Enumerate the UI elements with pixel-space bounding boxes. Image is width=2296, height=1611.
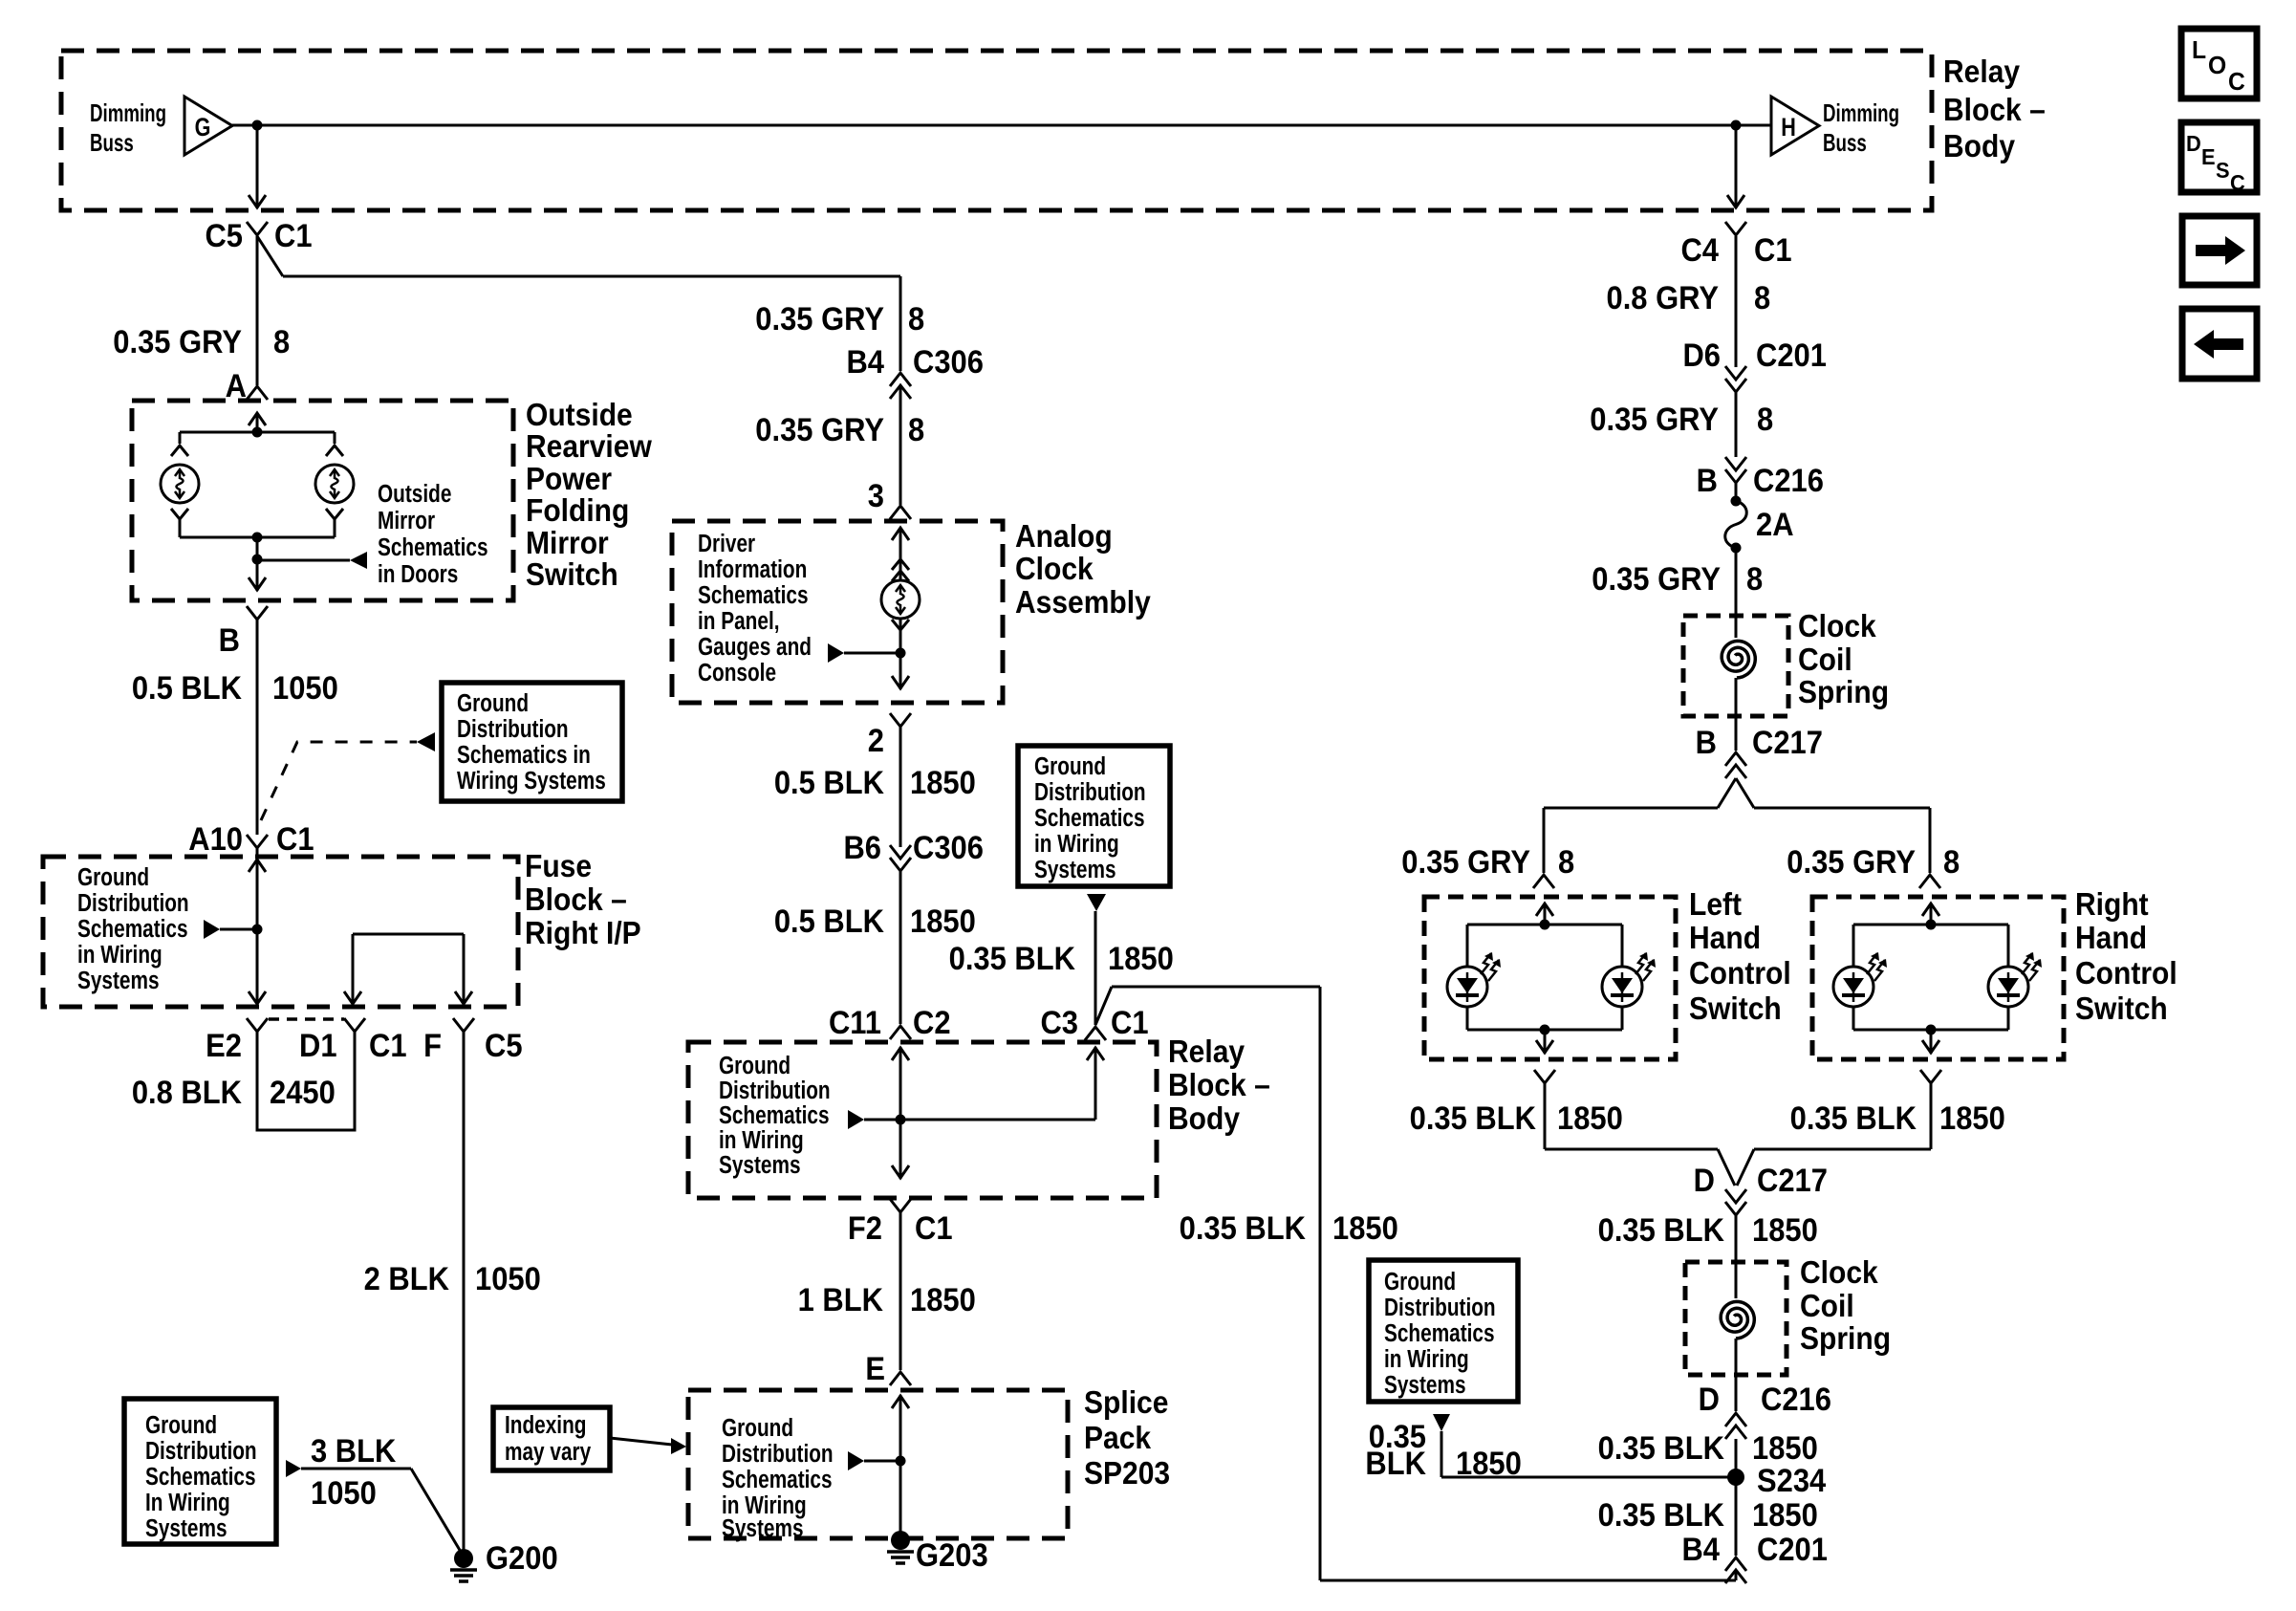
clock lamp: [881, 580, 920, 619]
wire fuse block vertical: [249, 848, 266, 1005]
svg-text:Buss: Buss: [1823, 128, 1867, 157]
splice inner text: [722, 1414, 834, 1542]
clock coil spring label 2: [1800, 1254, 1891, 1357]
stub ground distribution S234: [1433, 1414, 1450, 1431]
svg-text:2 BLK: 2 BLK: [364, 1261, 450, 1297]
right hand control switch dashed box: [1812, 897, 2064, 1059]
svg-text:Hand: Hand: [1689, 920, 1761, 956]
wire split Y: [1718, 778, 1754, 808]
wire 1 BLK 1850: [798, 1212, 976, 1370]
svg-text:0.35 BLK: 0.35 BLK: [1598, 1430, 1725, 1467]
wire 0.35 BLK 1850 stub label: [949, 941, 1174, 977]
svg-text:B: B: [219, 622, 240, 659]
left hand control switch label: [1689, 886, 1791, 1027]
node rail bottom: [252, 533, 263, 543]
pin F2 C1: [848, 1199, 953, 1246]
ground distribution solid box right: [1369, 1260, 1518, 1402]
wire left switch bottom: [1536, 1030, 1553, 1054]
relay block body dashed box: [688, 1042, 1157, 1198]
wire 0.35 GRY 8 left branch: [1401, 844, 1574, 881]
svg-text:Systems: Systems: [77, 967, 160, 994]
svg-text:B4: B4: [1681, 1532, 1720, 1568]
pin 2 clock: [868, 713, 911, 758]
lamp left pin bottom: [171, 509, 188, 519]
svg-text:C5: C5: [205, 218, 243, 254]
clock coil spring dashed box 2: [1685, 1262, 1787, 1375]
svg-text:0.5 BLK: 0.5 BLK: [132, 670, 243, 707]
node right switch top: [1926, 920, 1937, 930]
wire C1 branch horizontal: [283, 275, 900, 278]
svg-text:D: D: [2186, 131, 2201, 156]
svg-text:in Wiring: in Wiring: [719, 1126, 804, 1154]
lamp left: [161, 465, 199, 503]
svg-text:C: C: [2230, 170, 2245, 195]
svg-text:1850: 1850: [1752, 1212, 1818, 1249]
svg-text:1850: 1850: [1557, 1100, 1623, 1137]
node junction G: [252, 120, 263, 131]
svg-text:0.8 GRY: 0.8 GRY: [1607, 280, 1720, 316]
svg-text:3 BLK: 3 BLK: [311, 1433, 397, 1469]
svg-text:in Wiring: in Wiring: [1384, 1345, 1469, 1373]
wire right branch: [1754, 808, 1930, 873]
pin E2 D1: [206, 1018, 336, 1063]
connector D C217: [1694, 1163, 1828, 1215]
lamp right: [315, 465, 354, 503]
svg-text:S234: S234: [1757, 1463, 1826, 1499]
svg-text:Rearview: Rearview: [526, 428, 652, 465]
stub 3 BLK 1050: [286, 1433, 464, 1557]
svg-text:Distribution: Distribution: [722, 1440, 834, 1468]
svg-text:1850: 1850: [1332, 1210, 1398, 1247]
splice pack dashed box: [688, 1390, 1068, 1538]
pin C11 C2: [829, 1005, 951, 1041]
svg-text:C216: C216: [1753, 463, 1824, 499]
svg-text:Body: Body: [1168, 1100, 1240, 1137]
wire S234 branch left: [1441, 1431, 1736, 1477]
svg-text:F2: F2: [848, 1210, 882, 1247]
svg-text:D: D: [1699, 1382, 1720, 1418]
node splice stub: [896, 1456, 906, 1467]
node fuse stub: [252, 925, 263, 935]
connector B C217: [1696, 725, 1823, 778]
pin F C5: [423, 1018, 522, 1063]
svg-text:D1: D1: [299, 1028, 337, 1064]
wire left switch top: [1536, 903, 1553, 925]
LED right 1: [1833, 952, 1887, 1007]
fuse block label: [525, 848, 641, 951]
svg-text:C1: C1: [276, 821, 314, 858]
svg-text:G200: G200: [486, 1540, 558, 1577]
wire 0.35 BLK 1850 to coil 2: [1598, 1212, 1818, 1411]
svg-text:C: C: [2228, 68, 2245, 96]
wire dimming buss horizontal: [232, 124, 1771, 127]
wire clock internal top: [892, 528, 909, 581]
svg-text:Block –: Block –: [1168, 1067, 1270, 1103]
wire switch top stub: [249, 413, 266, 432]
svg-text:Control: Control: [2075, 955, 2177, 991]
wire C3 to ground distribution stub: [1094, 911, 1097, 1025]
connector D6 C201: [1682, 337, 1827, 392]
connector B C216: [1697, 457, 1824, 498]
svg-text:Distribution: Distribution: [719, 1077, 831, 1104]
svg-text:Assembly: Assembly: [1015, 584, 1151, 620]
svg-text:Body: Body: [1943, 128, 2015, 164]
svg-text:0.35 BLK: 0.35 BLK: [1410, 1100, 1537, 1137]
svg-text:2A: 2A: [1756, 507, 1794, 543]
node left switch top: [1540, 920, 1550, 930]
fuse block inner text: [77, 863, 189, 994]
svg-text:Wiring Systems: Wiring Systems: [457, 767, 606, 795]
svg-text:0.35 BLK: 0.35 BLK: [949, 941, 1076, 977]
left arrow icon box: [2182, 309, 2257, 379]
stub driver information: [828, 643, 900, 663]
svg-text:B: B: [1696, 725, 1717, 761]
svg-text:SP203: SP203: [1084, 1455, 1170, 1491]
wire clock internal bottom: [892, 619, 909, 689]
svg-text:C1: C1: [915, 1210, 953, 1247]
stub outside mirror schematics: [257, 552, 367, 569]
svg-text:1 BLK: 1 BLK: [798, 1282, 884, 1318]
svg-text:in Wiring: in Wiring: [77, 941, 162, 969]
wire 0.35 GRY 8 left: [113, 236, 290, 385]
DESC icon box: [2181, 122, 2257, 195]
svg-text:Systems: Systems: [145, 1514, 227, 1542]
left hand control switch dashed box: [1424, 897, 1676, 1059]
LED left 2: [1602, 952, 1656, 1007]
svg-text:E: E: [865, 1351, 885, 1387]
svg-text:Coil: Coil: [1798, 642, 1852, 678]
svg-text:0.8 BLK: 0.8 BLK: [132, 1075, 243, 1111]
pin E splice: [865, 1351, 911, 1387]
svg-text:Information: Information: [698, 555, 807, 583]
svg-text:G203: G203: [916, 1537, 988, 1574]
svg-text:1850: 1850: [910, 903, 976, 940]
ground distribution solid box lower left: [124, 1399, 276, 1544]
svg-text:BLK: BLK: [1365, 1446, 1426, 1482]
pin right switch bottom: [1920, 1070, 1941, 1083]
svg-text:8: 8: [1746, 561, 1763, 598]
pin right switch: [1919, 875, 1940, 888]
wire right switch rails: [1853, 925, 2008, 1030]
svg-text:F: F: [423, 1028, 442, 1064]
arrow indexing to splice pack: [610, 1438, 686, 1454]
wire 0.35 BLK 1850 below S234: [1598, 1497, 1818, 1534]
svg-text:Dimming: Dimming: [90, 98, 166, 127]
lamp left pin top: [171, 446, 188, 456]
wire H drop to border: [1727, 125, 1744, 208]
lamp right pin top: [326, 446, 343, 456]
dimming buss triangle G: [184, 97, 232, 155]
fuse block dashed box: [43, 857, 518, 1007]
svg-text:0.35 BLK: 0.35 BLK: [1180, 1210, 1307, 1247]
clock coil spring label 1: [1798, 608, 1889, 710]
wire G drop to border: [249, 125, 266, 208]
svg-text:in Doors: in Doors: [378, 560, 458, 588]
svg-text:Block –: Block –: [525, 882, 627, 918]
stub splice ground distribution: [848, 1451, 900, 1470]
svg-text:Systems: Systems: [1034, 856, 1116, 883]
relay block inner text: [719, 1052, 831, 1179]
svg-text:0.35 GRY: 0.35 GRY: [1592, 561, 1721, 598]
wire switch bottom exit: [249, 559, 266, 591]
connector C4 C1: [1680, 222, 1791, 268]
svg-text:1850: 1850: [1456, 1446, 1522, 1482]
driver information text: [698, 530, 812, 686]
svg-text:D: D: [1694, 1163, 1715, 1199]
svg-text:E2: E2: [206, 1028, 242, 1064]
svg-text:Clock: Clock: [1800, 1254, 1878, 1291]
wire 0.35 GRY 8 middle top: [755, 276, 924, 371]
svg-text:C5: C5: [485, 1028, 523, 1064]
svg-text:Gauges and: Gauges and: [698, 633, 812, 661]
svg-text:Mirror: Mirror: [378, 507, 435, 534]
wire C1 branch diagonal: [257, 236, 283, 276]
splice pack label: [1084, 1384, 1170, 1491]
svg-text:C1: C1: [1111, 1005, 1149, 1041]
svg-text:H: H: [1781, 114, 1796, 142]
svg-text:0.35 GRY: 0.35 GRY: [755, 412, 884, 448]
wire 0.5 BLK 1050: [132, 620, 338, 835]
connector dashes D1 C1: [269, 1017, 344, 1021]
connector B4 C306: [846, 344, 984, 399]
stub ground distribution fuse: [204, 920, 257, 939]
svg-text:Right: Right: [2075, 886, 2149, 923]
svg-text:Coil: Coil: [1800, 1288, 1854, 1324]
svg-text:1050: 1050: [272, 670, 338, 707]
clock coil spring spiral 1: [1722, 641, 1755, 678]
wire 0.35 GRY 8 to coil: [1592, 548, 1763, 751]
wire relay right riser: [1087, 1047, 1104, 1120]
svg-text:Relay: Relay: [1943, 54, 2021, 90]
wire top rail: [180, 432, 335, 444]
node stub: [252, 555, 263, 565]
splice S234: [1727, 1463, 1826, 1499]
svg-text:1050: 1050: [311, 1475, 377, 1512]
node left switch bottom: [1540, 1025, 1550, 1035]
svg-text:Ground: Ground: [457, 689, 529, 717]
svg-text:Hand: Hand: [2075, 920, 2147, 956]
svg-text:Clock: Clock: [1015, 551, 1094, 587]
svg-text:A10: A10: [188, 821, 243, 858]
svg-text:G: G: [195, 114, 211, 142]
svg-text:0.35 GRY: 0.35 GRY: [755, 301, 884, 337]
connector B6 C306: [843, 830, 984, 871]
svg-text:Splice: Splice: [1084, 1384, 1168, 1421]
right arrow icon box: [2182, 216, 2257, 285]
connector C5 C1: [205, 218, 312, 254]
svg-text:C2: C2: [913, 1005, 951, 1041]
svg-text:Left: Left: [1689, 886, 1742, 923]
wire 0.35 BLK 1850 left down: [1410, 1083, 1735, 1186]
analog clock assembly dashed box: [672, 521, 1003, 703]
svg-text:Ground: Ground: [1034, 752, 1106, 780]
svg-text:8: 8: [273, 324, 290, 360]
svg-text:Distribution: Distribution: [1034, 778, 1146, 806]
dimming buss triangle H: [1771, 97, 1819, 155]
svg-text:Schematics: Schematics: [698, 581, 809, 609]
lamp right pin bottom: [326, 509, 343, 519]
relay block body label: [1168, 1034, 1270, 1137]
svg-text:Indexing: Indexing: [505, 1411, 586, 1439]
svg-text:E: E: [2201, 144, 2216, 169]
pin 3 clock: [868, 478, 911, 519]
pin C3 C1: [1040, 1005, 1148, 1041]
analog clock assembly label: [1015, 518, 1151, 620]
svg-text:Schematics: Schematics: [722, 1466, 833, 1493]
wire splice vertical: [892, 1395, 909, 1540]
svg-text:1850: 1850: [910, 1282, 976, 1318]
wire 0.35 BLK 1850 long run label: [1180, 1210, 1398, 1247]
pin A connector: [226, 368, 268, 404]
svg-text:0.35 GRY: 0.35 GRY: [1787, 844, 1916, 881]
svg-text:8: 8: [1558, 844, 1574, 881]
svg-text:Distribution: Distribution: [77, 889, 189, 917]
wire 0.35 GRY 8 middle 2: [755, 386, 924, 505]
ground distribution solid box middle: [1018, 746, 1170, 886]
circuit breaker 2A: [1725, 496, 1794, 554]
svg-text:D6: D6: [1682, 337, 1721, 374]
svg-text:Pack: Pack: [1084, 1420, 1152, 1456]
connector B4 C201: [1681, 1532, 1828, 1583]
dashed pointer to ground distribution: [261, 732, 435, 820]
svg-text:1850: 1850: [1752, 1497, 1818, 1534]
svg-text:may vary: may vary: [505, 1438, 591, 1466]
node junction H: [1731, 120, 1742, 131]
wire 0.35 GRY 8 right: [1590, 392, 1773, 457]
svg-text:C4: C4: [1680, 232, 1719, 269]
svg-text:Schematics: Schematics: [378, 533, 488, 561]
wire rail to stub: [256, 537, 259, 559]
svg-text:Schematics: Schematics: [1384, 1319, 1495, 1347]
stub ground distribution C3: [1087, 894, 1106, 911]
svg-text:Folding: Folding: [526, 492, 629, 529]
wire 0.35 BLK 1850 right down: [1737, 1083, 2005, 1186]
svg-text:Ground: Ground: [145, 1411, 217, 1439]
right hand control switch label: [2075, 886, 2177, 1027]
clock coil spring dashed box 1: [1683, 616, 1788, 716]
wire bottom rail: [180, 519, 335, 537]
svg-text:Distribution: Distribution: [457, 715, 569, 743]
wire left switch rails: [1467, 925, 1622, 1030]
ground distribution solid box upper: [442, 683, 622, 801]
dimming buss label right: [1823, 98, 1899, 157]
svg-text:Schematics: Schematics: [77, 915, 188, 943]
node right switch bottom: [1926, 1025, 1937, 1035]
svg-text:C217: C217: [1752, 725, 1823, 761]
svg-text:0.5 BLK: 0.5 BLK: [774, 765, 885, 801]
node relay stub: [896, 1115, 906, 1125]
svg-text:0.35 BLK: 0.35 BLK: [1790, 1100, 1917, 1137]
svg-text:1050: 1050: [475, 1261, 541, 1297]
svg-text:C11: C11: [829, 1005, 881, 1041]
svg-text:Schematics in: Schematics in: [457, 741, 591, 769]
svg-text:C1: C1: [369, 1028, 407, 1064]
svg-text:1850: 1850: [1939, 1100, 2005, 1137]
wire to fuse 2A: [1735, 483, 1738, 501]
svg-text:C1: C1: [274, 218, 313, 254]
svg-text:0.35 BLK: 0.35 BLK: [1598, 1212, 1725, 1249]
svg-text:8: 8: [1943, 844, 1960, 881]
svg-text:2450: 2450: [270, 1075, 336, 1111]
svg-text:C201: C201: [1757, 1532, 1828, 1568]
wire 0.8 GRY 8: [1607, 236, 1771, 367]
pin C1 fuse: [344, 1018, 407, 1063]
svg-text:Right I/P: Right I/P: [525, 915, 641, 951]
svg-text:O: O: [2208, 52, 2226, 79]
connector D C216: [1699, 1382, 1831, 1439]
svg-text:Switch: Switch: [1689, 991, 1782, 1027]
wire left branch: [1544, 808, 1718, 873]
svg-text:Systems: Systems: [719, 1151, 801, 1179]
svg-text:Control: Control: [1689, 955, 1791, 991]
mirror switch label: [526, 397, 652, 593]
svg-text:Ground: Ground: [77, 863, 149, 891]
svg-text:8: 8: [1757, 402, 1773, 438]
outside mirror schematics text: [378, 480, 488, 588]
svg-text:0.35 GRY: 0.35 GRY: [1590, 402, 1719, 438]
svg-text:2: 2: [868, 723, 884, 759]
wire right switch top: [1922, 903, 1939, 925]
svg-text:B6: B6: [843, 830, 881, 866]
svg-text:8: 8: [908, 301, 924, 337]
svg-text:Console: Console: [698, 659, 776, 686]
node rail top: [252, 427, 263, 438]
svg-text:Clock: Clock: [1798, 608, 1876, 644]
svg-text:Schematics: Schematics: [1034, 804, 1145, 832]
svg-text:0.5 BLK: 0.5 BLK: [774, 903, 885, 940]
clock coil spring spiral 2: [1721, 1301, 1754, 1339]
svg-text:L: L: [2192, 36, 2206, 64]
pin B connector: [219, 606, 268, 658]
outside rearview mirror switch dashed box: [132, 401, 513, 600]
svg-text:8: 8: [1754, 280, 1770, 316]
wire 0.35 GRY 8 right branch: [1787, 844, 1960, 881]
svg-text:C1: C1: [1754, 232, 1792, 269]
svg-text:Systems: Systems: [1384, 1371, 1466, 1399]
svg-text:0.35 BLK: 0.35 BLK: [1598, 1497, 1725, 1534]
wire 0.8 BLK 2450 loop: [132, 1032, 355, 1130]
wire 0.5 BLK 1850: [774, 727, 976, 847]
svg-text:in Panel,: in Panel,: [698, 607, 780, 635]
ground G200: [450, 1540, 558, 1581]
stub relay ground distribution: [848, 1110, 1095, 1129]
svg-text:Buss: Buss: [90, 128, 134, 157]
svg-text:C201: C201: [1756, 337, 1827, 374]
ground G203: [887, 1531, 988, 1573]
pin left switch: [1533, 875, 1554, 888]
wire 0.5 BLK 1850 second: [774, 871, 976, 1024]
svg-text:B4: B4: [846, 344, 884, 381]
svg-text:in Wiring: in Wiring: [1034, 830, 1119, 858]
svg-text:Driver: Driver: [698, 530, 755, 557]
svg-text:Schematics: Schematics: [145, 1463, 256, 1491]
svg-text:S: S: [2216, 158, 2230, 183]
svg-text:C306: C306: [913, 830, 984, 866]
svg-text:0.35 GRY: 0.35 GRY: [113, 324, 242, 360]
svg-text:In Wiring: In Wiring: [145, 1489, 230, 1516]
svg-text:Schematics: Schematics: [719, 1101, 830, 1129]
relay block body top label: [1943, 54, 2046, 164]
svg-text:Outside: Outside: [378, 480, 451, 508]
indexing may vary box: [493, 1407, 610, 1470]
svg-text:Spring: Spring: [1798, 674, 1889, 710]
svg-text:8: 8: [908, 412, 924, 448]
node clock stub: [896, 648, 906, 659]
svg-text:Ground: Ground: [719, 1052, 791, 1079]
svg-text:C306: C306: [913, 344, 984, 381]
LED right 2: [1988, 952, 2042, 1007]
svg-text:Distribution: Distribution: [1384, 1294, 1496, 1321]
